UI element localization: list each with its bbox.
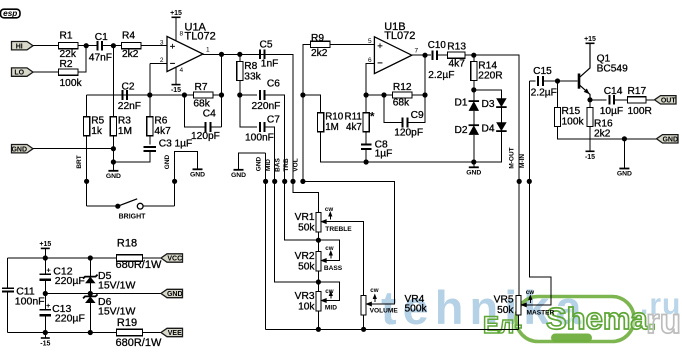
diode D2 (469, 125, 480, 135)
svg-text:GND: GND (11, 146, 27, 153)
node bottom rail C13 junction (43, 330, 48, 335)
wire D1 D2 link (473, 111, 475, 125)
svg-text:2.2µF: 2.2µF (531, 88, 557, 99)
wire VR3 bottom (317, 311, 319, 329)
transistor Q1 (578, 74, 581, 89)
wire VOL to VR4 (303, 181, 394, 304)
svg-text:+: + (46, 301, 51, 310)
capacitor C14 (610, 95, 615, 105)
input tag LO (12, 68, 34, 76)
wire MID to VR junction (275, 181, 319, 282)
svg-text:R11: R11 (345, 111, 362, 122)
node VOL bus junction (300, 179, 305, 184)
capacitor C10 (433, 50, 438, 60)
svg-text:GND: GND (617, 171, 632, 178)
wire C13 bottom (44, 315, 46, 332)
svg-text:50k: 50k (298, 262, 315, 273)
svg-text:C7: C7 (267, 114, 280, 125)
node output U1A junction (219, 52, 224, 57)
ground bright switch (197, 166, 199, 169)
capacitor C7 (260, 122, 265, 132)
svg-text:GND: GND (164, 154, 171, 169)
wire R6 drop (149, 95, 151, 117)
node VR4 gnd junction (361, 327, 366, 332)
resistor R17 (628, 97, 647, 103)
svg-text:2: 2 (160, 57, 164, 64)
wire feedback row (87, 94, 150, 96)
svg-text:R7: R7 (195, 82, 208, 93)
resistor R18 (116, 255, 142, 261)
svg-text:+15: +15 (170, 10, 182, 17)
wire node to R7 (150, 94, 194, 96)
svg-text:6: 6 (368, 57, 372, 64)
capacitor C6 (260, 90, 265, 100)
resistor R2 (58, 69, 77, 75)
wire R15 bottom row (558, 127, 657, 139)
resistor R4 (121, 43, 141, 49)
watermark green ring (516, 297, 634, 342)
svg-text:R15: R15 (562, 106, 581, 117)
svg-text:BC549: BC549 (597, 63, 628, 74)
svg-text:R12: R12 (393, 82, 412, 93)
wire R15 top (557, 81, 559, 108)
wire U1A output row (203, 53, 293, 55)
svg-text:GND: GND (167, 291, 183, 298)
wire bottom rail (8, 332, 117, 334)
svg-text:GND: GND (662, 136, 678, 143)
wire VR5 bottom (518, 315, 520, 329)
wire C3 to R3 row (113, 151, 149, 162)
wire C13 top (44, 294, 46, 310)
node A junction (84, 43, 89, 48)
svg-text:100nF: 100nF (245, 133, 274, 144)
svg-text:+: + (46, 265, 51, 274)
svg-text:+: + (170, 41, 176, 52)
zener diode D6 (85, 296, 96, 303)
wire C9 right (408, 55, 426, 122)
svg-text:cw: cw (325, 245, 333, 252)
node R7 right junction (219, 92, 224, 97)
wire U1B output (412, 54, 431, 56)
wire output to C4 leg (221, 54, 223, 127)
svg-text:VR5: VR5 (494, 294, 514, 305)
wire diode col2 top (474, 90, 502, 98)
wire R19 to VEE (142, 332, 161, 334)
svg-text:BRT: BRT (76, 155, 83, 168)
svg-text:+: + (377, 41, 383, 52)
Q1 +15 supply (586, 42, 595, 44)
node R14 top junction (471, 53, 476, 58)
node R9 R10 junction (300, 92, 305, 97)
svg-text:C1: C1 (95, 32, 108, 43)
wire R7 right (213, 94, 222, 96)
svg-text:R17: R17 (628, 86, 647, 97)
node R3 C3 junction (111, 159, 116, 164)
svg-text:4k7: 4k7 (449, 59, 466, 70)
svg-text:-15: -15 (585, 154, 595, 161)
svg-text:120pF: 120pF (191, 131, 220, 142)
svg-text:OUT: OUT (661, 97, 677, 104)
wire C9 branch (384, 95, 403, 123)
svg-text:8: 8 (180, 31, 184, 38)
svg-text:M-OUT: M-OUT (509, 147, 516, 168)
wire C11 left leg (7, 258, 9, 288)
node switch gnd junction (172, 179, 177, 184)
pot VR4 (361, 295, 366, 315)
svg-text:1µF: 1µF (375, 148, 393, 159)
resistor R9 (310, 41, 330, 47)
wire D3 D4 link (500, 107, 502, 122)
svg-text:220µF: 220µF (55, 275, 85, 287)
svg-text:R13: R13 (447, 42, 466, 53)
capacitor C5 (260, 50, 265, 60)
node gnd out junction (622, 136, 627, 141)
svg-text:VCC: VCC (167, 256, 182, 263)
svg-text:VOLUME: VOLUME (370, 308, 399, 315)
svg-text:C5: C5 (260, 40, 273, 51)
output tag VCC (161, 254, 183, 262)
svg-text:GND: GND (190, 172, 205, 179)
node bottom rail D6 junction (88, 330, 93, 335)
ground output (623, 139, 625, 169)
node R8 top junction (237, 52, 242, 57)
wire R12 right (412, 94, 425, 96)
resistor R11 (363, 113, 369, 132)
node C4 left junction (182, 92, 187, 97)
wire R5 to BRT node (86, 136, 88, 207)
wire C7 branch (240, 95, 257, 127)
wire mid rail (45, 293, 161, 295)
ground diodes (473, 162, 475, 167)
node GND bus junction (263, 179, 268, 184)
VR4 wiper (365, 302, 372, 307)
svg-text:GND: GND (255, 156, 262, 171)
svg-text:1k: 1k (91, 126, 103, 137)
svg-text:1nF: 1nF (261, 59, 279, 70)
node M-OUT junction (517, 179, 522, 184)
svg-text:R18: R18 (117, 238, 137, 250)
svg-text:R5: R5 (91, 115, 104, 126)
wire R8 top drop (239, 54, 241, 61)
svg-text:C15: C15 (533, 66, 552, 77)
svg-text:220R: 220R (478, 70, 502, 81)
wire R9 to U1B pin5 (330, 43, 375, 45)
zener diode D5 (85, 277, 96, 284)
wire C6 right to BAS (265, 95, 285, 181)
svg-text:500k: 500k (405, 303, 428, 314)
wire R4 to U1A pin3 (141, 45, 167, 47)
node C8 bottom junction (364, 159, 369, 164)
wire R13 right to MOUT (465, 55, 519, 297)
wire pin6 to R12 (366, 94, 393, 96)
capacitor C1 (98, 41, 103, 51)
wire GND tag to R3 line (33, 148, 113, 150)
ground bus (238, 167, 240, 170)
capacitor C11 (2, 287, 14, 289)
svg-text:C6: C6 (267, 79, 280, 90)
wire D6 bottom (89, 303, 91, 333)
node B junction (111, 43, 116, 48)
power +15 symbol (41, 247, 50, 249)
svg-text:R10: R10 (325, 111, 344, 122)
wire C5 right to TRB (265, 54, 293, 181)
Q1 -15 supply (586, 150, 595, 152)
node M-IN junction (527, 179, 532, 184)
power -15 symbol (44, 333, 46, 339)
svg-text:2.2µF: 2.2µF (428, 70, 454, 81)
wire C7 right to MID (265, 127, 275, 181)
wire R8 bottom (239, 81, 241, 96)
wire R18 to VCC (142, 257, 161, 259)
wire R11 to C8 (365, 132, 367, 145)
svg-text:TL072: TL072 (384, 30, 415, 42)
wire U1B pin6 (366, 64, 374, 95)
svg-text:MID: MID (265, 159, 272, 171)
svg-text:Ел-: Ел- (483, 312, 522, 339)
wire R2 up to node A (78, 46, 86, 72)
bus gnd stub (239, 153, 266, 167)
svg-text:D2: D2 (455, 125, 468, 136)
wire C4 branch right (211, 126, 222, 128)
node VR1 VR2 junction (316, 238, 321, 243)
wire M-IN bus (523, 81, 551, 305)
output tag GND right (657, 135, 679, 143)
VR3 wiper loop (320, 298, 327, 303)
svg-text:R9: R9 (311, 33, 324, 44)
node top rail D5 junction (88, 255, 93, 260)
capacitor C13 electrolytic (40, 309, 52, 311)
node diode top junction (471, 87, 476, 92)
wire +15 drop (44, 248, 46, 274)
svg-text:GND: GND (106, 173, 121, 180)
svg-text:-15: -15 (40, 341, 50, 348)
wire emitter to C14 (590, 99, 607, 101)
wire switch to gnd stub (175, 152, 198, 207)
svg-text:15V/1W: 15V/1W (98, 279, 135, 291)
svg-text:cw: cw (325, 288, 333, 295)
wire R8 node to C6 (240, 94, 257, 96)
node R12 right junction (422, 92, 427, 97)
svg-text:1: 1 (206, 47, 210, 54)
svg-text:cw: cw (325, 206, 333, 213)
capacitor C9 (403, 118, 408, 128)
diode D1 (469, 101, 480, 111)
svg-text:+15: +15 (39, 241, 51, 248)
wire C4 branch left (184, 95, 205, 127)
wire R10 bottom (321, 132, 367, 162)
svg-text:C4: C4 (203, 109, 216, 120)
output tag OUT (655, 96, 677, 104)
wire C15 to base (543, 80, 578, 82)
capacitor C2 (122, 90, 127, 100)
resistor R8 (237, 62, 243, 81)
svg-text:R6: R6 (154, 115, 167, 126)
wire R10 branch (303, 95, 321, 113)
capacitor C8 (361, 145, 372, 149)
wire TRB to VR1 (293, 181, 318, 212)
svg-text:1M: 1M (118, 126, 132, 137)
wire GND bus (265, 153, 267, 329)
wire gnd bottom row (266, 328, 519, 330)
svg-text:VOL: VOL (293, 158, 300, 171)
diode D4 (496, 122, 507, 131)
svg-text:R19: R19 (117, 317, 137, 329)
capacitor C3 (144, 147, 157, 151)
node mid rail D junction (88, 291, 93, 296)
wire R14 top (473, 55, 475, 62)
svg-text:1µF: 1µF (175, 139, 193, 150)
resistor R15 (554, 108, 560, 127)
wire R6 to C3 (149, 136, 151, 145)
wire R11 top (365, 95, 367, 113)
svg-text:GND: GND (466, 170, 481, 177)
VR5 wiper (520, 302, 527, 307)
resistor R5 (84, 117, 90, 136)
resistor R3 (110, 117, 116, 136)
wire D5 top (89, 258, 91, 277)
diode D3 (496, 98, 507, 107)
svg-text:4k7: 4k7 (154, 126, 171, 137)
svg-text:−: − (170, 58, 176, 69)
svg-text:2k2: 2k2 (122, 49, 139, 60)
resistor R13 (448, 52, 466, 58)
pot VR5 (516, 295, 521, 315)
svg-text:-15: -15 (171, 87, 181, 94)
svg-text:R4: R4 (122, 30, 135, 41)
svg-text:100k: 100k (562, 117, 585, 128)
node U1B out junction (422, 53, 427, 58)
resistor R19 (116, 329, 142, 335)
node VR2 VR3 junction (316, 279, 321, 284)
output tag GND supply (161, 289, 183, 297)
svg-text:TL072: TL072 (185, 30, 216, 42)
svg-text:100k: 100k (60, 78, 83, 89)
svg-text:680R/1W: 680R/1W (116, 259, 162, 271)
svg-text:C14: C14 (604, 86, 623, 97)
svg-text:ru: ru (646, 302, 681, 341)
wire C8 bottom (365, 149, 367, 162)
VR1 wiper (320, 219, 327, 224)
svg-text:15V/1W: 15V/1W (98, 306, 135, 318)
wire C14 to R17 (614, 99, 627, 101)
svg-text:4: 4 (180, 67, 184, 74)
wire C12 to mid rail (44, 280, 46, 294)
svg-text:50k: 50k (298, 223, 315, 234)
wire R5 drop (86, 95, 88, 117)
svg-text:C3: C3 (159, 139, 172, 150)
svg-text:TRB: TRB (283, 158, 290, 172)
svg-text:2k2: 2k2 (311, 48, 328, 59)
node C2 right junction (147, 92, 152, 97)
watermark green pill (551, 334, 592, 343)
svg-text:R3: R3 (118, 115, 131, 126)
svg-text:C10: C10 (428, 40, 447, 51)
pot VR1 (316, 212, 321, 232)
svg-text:220nF: 220nF (252, 101, 281, 112)
svg-text:esp: esp (3, 9, 17, 18)
svg-text:R2: R2 (60, 59, 73, 70)
svg-text:7: 7 (415, 48, 419, 55)
node diode bottom junction (471, 159, 476, 164)
wire C1 to R4 (102, 45, 121, 47)
wire R16 bottom (589, 127, 591, 152)
svg-text:100nF: 100nF (15, 295, 45, 307)
svg-text:TREBLE: TREBLE (325, 226, 352, 233)
node R8 bottom junction (237, 92, 242, 97)
resistor R12 (393, 92, 413, 98)
node MID bus junction (272, 179, 277, 184)
wire U1A pin2 (150, 62, 167, 64)
node TRB bus junction (290, 179, 295, 184)
node base junction (555, 78, 560, 83)
wire BAS to VR junction (285, 181, 319, 240)
resistor R7 (193, 92, 213, 98)
wire VR2 bottom (317, 271, 319, 292)
wire R3 lower (112, 136, 114, 166)
svg-text:R1: R1 (60, 30, 73, 41)
svg-text:50k: 50k (497, 305, 514, 316)
esp logo (1, 9, 21, 18)
input tag GND (12, 145, 34, 153)
svg-text:M-IN: M-IN (519, 154, 526, 168)
svg-text:+15: +15 (584, 36, 596, 43)
wire R16 top (589, 100, 591, 108)
svg-text:BRIGHT: BRIGHT (119, 214, 147, 221)
svg-text:Shema.: Shema. (546, 301, 656, 336)
svg-text:D1: D1 (455, 97, 468, 108)
svg-text:D3: D3 (482, 99, 495, 110)
node top rail C12 junction (43, 255, 48, 260)
resistor R16 (587, 108, 593, 127)
output tag VEE (161, 328, 183, 336)
wire R3 riser (112, 46, 114, 117)
wire VR1 bottom (317, 232, 319, 252)
node emitter junction (587, 97, 592, 102)
svg-text:*: * (370, 110, 375, 124)
node pin6 junction (364, 92, 369, 97)
node R3 gnd junction (111, 146, 116, 151)
svg-text:LO: LO (14, 70, 24, 77)
svg-text:R8: R8 (244, 61, 257, 72)
U1A +15 supply (172, 16, 181, 18)
svg-text:4k7: 4k7 (346, 122, 362, 133)
svg-text:cw: cw (526, 289, 534, 296)
wire D5 to mid (89, 283, 91, 296)
wire VR4 bottom (363, 315, 365, 329)
resistor R10 (318, 113, 324, 132)
wire VOL riser (303, 44, 311, 181)
pot VR2 (316, 251, 321, 271)
svg-text:C9: C9 (411, 110, 424, 121)
wire C10 to R13 (437, 54, 448, 56)
svg-text:−: − (377, 58, 383, 69)
ground under R3 (112, 166, 114, 171)
pot VR3 (316, 291, 321, 311)
wire gnd row mid (366, 161, 474, 163)
wire top rail (8, 257, 117, 259)
svg-text:120pF: 120pF (394, 127, 423, 138)
wire D4 bottom (474, 131, 502, 162)
svg-text:10k: 10k (298, 302, 315, 313)
svg-text:100R: 100R (628, 106, 652, 117)
wire R1 to node A (78, 45, 97, 47)
U1A -15 supply (175, 67, 177, 85)
svg-text:2k2: 2k2 (594, 129, 611, 140)
node mid rail C junction (43, 291, 48, 296)
input tag HI (12, 42, 34, 50)
svg-text:10µF: 10µF (600, 106, 623, 117)
node C9 left junction (381, 92, 386, 97)
